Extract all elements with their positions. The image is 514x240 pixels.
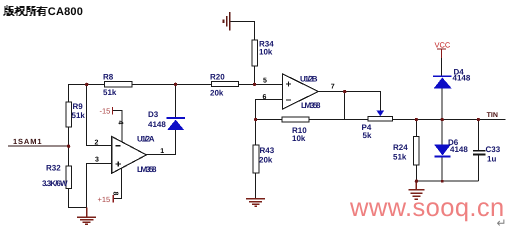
title 版权所有 (drawn) — [4, 5, 48, 16]
svg-text:U1/2B: U1/2B — [300, 75, 318, 84]
svg-text:VCC: VCC — [435, 40, 451, 49]
junction D6 bottom — [441, 180, 444, 183]
power bar VCC — [437, 48, 446, 50]
wire R43 top — [255, 120, 257, 145]
svg-text:7: 7 — [331, 84, 335, 91]
svg-text:R9: R9 — [73, 102, 84, 111]
junction R34/pin5 — [253, 83, 256, 86]
svg-text:3: 3 — [95, 157, 99, 164]
op-amp U1/2A triangle — [112, 137, 147, 174]
wire R10 left — [256, 119, 282, 121]
svg-text:1u: 1u — [487, 154, 496, 163]
svg-text:R24: R24 — [393, 143, 408, 152]
svg-text:CA800: CA800 — [48, 6, 83, 18]
op-amp A plus sign — [116, 161, 122, 166]
svg-text:www.sooq.cn: www.sooq.cn — [349, 194, 505, 222]
junction pin2 drop — [85, 83, 88, 86]
power bar +15 — [112, 195, 114, 203]
svg-text:4148: 4148 — [148, 120, 166, 129]
svg-text:1: 1 — [160, 148, 164, 155]
wire R24 vertical — [415, 120, 417, 182]
resistor R9 — [66, 102, 72, 127]
svg-text:6: 6 — [263, 94, 267, 101]
diode D4 triangle — [434, 78, 452, 89]
op-amp A minus sign — [116, 145, 121, 147]
junction pin6/R10/R43 — [254, 118, 257, 121]
wire VCC stem red segment — [441, 49, 443, 58]
op-amp U1/2B triangle — [282, 74, 318, 109]
svg-text:8: 8 — [112, 192, 119, 196]
wire D3 to top net — [175, 84, 177, 118]
svg-text:10k: 10k — [259, 47, 273, 56]
wire bottom left — [68, 206, 87, 208]
svg-text:LM358: LM358 — [301, 101, 321, 110]
diode D6 cathode bar — [434, 156, 450, 158]
svg-text:3.3K/6W: 3.3K/6W — [42, 179, 68, 188]
op-amp B plus sign — [286, 81, 291, 86]
resistor R43 — [253, 145, 259, 173]
resistor R24 — [413, 137, 419, 166]
junction R24/TIN — [415, 118, 418, 121]
wire R9/R32 vertical net — [68, 84, 70, 207]
wire R34 to pin5 — [254, 66, 256, 84]
wire R10 right to P4 — [309, 119, 368, 121]
wire opamp A pin8 — [113, 168, 121, 199]
diode D3 triangle — [167, 120, 184, 130]
diode D3 cathode bar — [167, 117, 185, 119]
wire opamp B output to wiper — [318, 92, 380, 111]
wire opamp A output — [146, 130, 175, 155]
svg-text:4: 4 — [117, 121, 124, 125]
resistor R8 — [105, 81, 132, 87]
ground left-facing at R34 — [223, 12, 229, 30]
ground below R32/pin3 — [77, 207, 96, 224]
svg-text:5k: 5k — [363, 131, 372, 140]
wire bottom right rail — [416, 180, 478, 182]
resistor R20 — [212, 81, 239, 86]
potentiometer P4 body — [368, 116, 393, 121]
resistor R10 — [282, 117, 309, 122]
ground below R43 — [246, 199, 265, 207]
svg-text:5: 5 — [263, 77, 267, 84]
svg-text:-15: -15 — [100, 107, 111, 116]
svg-text:R20: R20 — [210, 73, 225, 82]
wire output junction drop — [344, 92, 346, 120]
wire pin3 to ground — [87, 163, 112, 207]
svg-text:C33: C33 — [486, 145, 501, 154]
junction bottom rail left — [415, 180, 418, 183]
svg-text:51k: 51k — [393, 153, 407, 162]
svg-text:+15: +15 — [98, 195, 111, 204]
svg-text:51k: 51k — [103, 88, 117, 97]
wire top feedback net — [68, 83, 282, 85]
svg-text:R32: R32 — [46, 164, 61, 173]
svg-text:20k: 20k — [210, 89, 224, 98]
wire TIN net — [393, 119, 506, 121]
wire pin6 — [256, 100, 283, 120]
svg-text:1SAM1: 1SAM1 — [13, 137, 42, 146]
wire gnd stem to R34 — [230, 22, 255, 40]
svg-text:TIN: TIN — [487, 112, 498, 119]
svg-text:4148: 4148 — [453, 73, 471, 82]
diode D6 triangle — [434, 145, 450, 156]
capacitor C33 plates — [473, 151, 486, 155]
svg-text:LM358: LM358 — [137, 165, 157, 174]
junction C33/TIN — [477, 118, 480, 121]
resistor R34 — [252, 40, 258, 66]
wire R43 bottom to ground — [255, 173, 257, 198]
wire opamp A pin4 — [113, 111, 123, 142]
junction output B — [343, 90, 346, 93]
ground below R24 — [408, 181, 424, 199]
junction D4/D6/TIN — [441, 118, 444, 121]
diode D4 cathode bar — [433, 75, 452, 77]
svg-text:D3: D3 — [148, 110, 159, 119]
svg-text:2: 2 — [95, 140, 99, 147]
wire C33 — [477, 120, 479, 182]
wire pin2 drop — [87, 84, 112, 145]
svg-text:U1/2A: U1/2A — [137, 134, 155, 143]
wire VCC stem — [441, 58, 443, 76]
svg-text:R43: R43 — [260, 146, 275, 155]
junction D3/top net — [174, 83, 177, 86]
wire D6 cathode chain — [441, 120, 443, 182]
wire ISAM1 input — [8, 145, 69, 147]
svg-text:4148: 4148 — [450, 145, 468, 154]
svg-text:↵: ↵ — [497, 216, 507, 228]
resistor R32 — [66, 166, 72, 189]
junction ISAM1/R9/R32 — [67, 145, 70, 148]
op-amp B minus sign — [286, 99, 291, 101]
svg-text:51k: 51k — [72, 111, 86, 120]
svg-text:20k: 20k — [259, 156, 273, 165]
svg-text:10k: 10k — [292, 134, 306, 143]
P4 wiper arrow — [376, 110, 384, 116]
svg-text:R8: R8 — [103, 73, 114, 82]
wire D4 anode to TIN — [441, 89, 443, 120]
power bar -15 — [112, 107, 114, 115]
